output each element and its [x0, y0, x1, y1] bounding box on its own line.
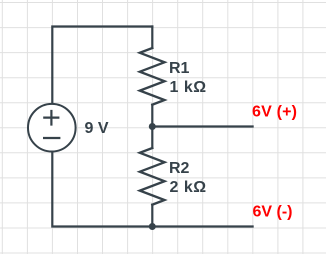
svg-text:9 V: 9 V	[85, 120, 109, 137]
wire: R2 top lead	[151, 127, 153, 149]
wire: R1 bottom lead	[151, 105, 153, 127]
voltage source plus sign	[43, 110, 59, 126]
wire: R2 bottom lead	[151, 205, 153, 227]
svg-text:R2: R2	[169, 160, 190, 177]
svg-text:6V (-): 6V (-)	[253, 203, 293, 220]
wire: R1 top lead	[151, 27, 153, 49]
voltage source V1 circle	[28, 104, 76, 152]
svg-text:1 kΩ: 1 kΩ	[170, 79, 207, 96]
resistor R1	[140, 48, 165, 105]
wire: bottom wire to 6V (-)	[52, 152, 252, 226]
junction node at bottom wire	[149, 223, 156, 230]
wire: left branch top (source top to top-left corner to top wire)	[52, 27, 152, 104]
voltage source minus sign	[43, 137, 60, 139]
junction node at R1-R2 divider	[149, 123, 156, 130]
resistor R2	[140, 148, 165, 205]
svg-text:2 kΩ: 2 kΩ	[170, 179, 207, 196]
svg-text:R1: R1	[169, 60, 190, 77]
svg-text:6V (+): 6V (+)	[252, 103, 297, 120]
wire: middle output wire to 6V (+)	[152, 125, 252, 127]
